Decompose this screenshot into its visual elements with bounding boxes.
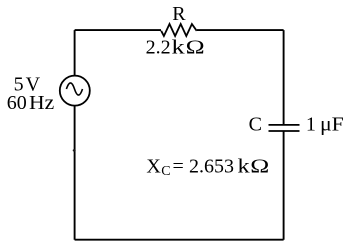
wire bottom segment — [75, 239, 284, 241]
svg-text:Hz: Hz — [29, 91, 54, 114]
svg-text:k: k — [238, 155, 251, 178]
wire right upper segment — [283, 30, 285, 124]
svg-text:=: = — [173, 156, 184, 178]
AC source sine wave — [66, 83, 82, 95]
svg-text:R: R — [172, 3, 186, 25]
svg-text:C: C — [161, 164, 170, 179]
wire top-left segment — [75, 29, 161, 31]
wire top-right segment — [197, 29, 284, 31]
wire left lower segment — [74, 106, 76, 240]
capacitor C bottom plate — [269, 130, 300, 132]
svg-text:Ω: Ω — [250, 155, 269, 177]
svg-text:X: X — [146, 156, 161, 178]
svg-text:Ω: Ω — [186, 36, 205, 58]
wire left upper segment — [74, 30, 76, 76]
svg-text:μF: μF — [320, 112, 344, 135]
svg-text:60: 60 — [7, 92, 27, 114]
svg-text:k: k — [172, 36, 185, 58]
AC source circle — [60, 76, 90, 106]
resistor R zigzag — [161, 24, 197, 36]
svg-text:2.653: 2.653 — [189, 156, 234, 178]
svg-text:2.2: 2.2 — [146, 36, 171, 58]
junction dot on left wire — [73, 149, 76, 151]
svg-text:1: 1 — [306, 113, 316, 135]
capacitor C top plate — [269, 124, 300, 126]
wire right lower segment — [283, 131, 285, 240]
svg-text:C: C — [249, 114, 262, 136]
